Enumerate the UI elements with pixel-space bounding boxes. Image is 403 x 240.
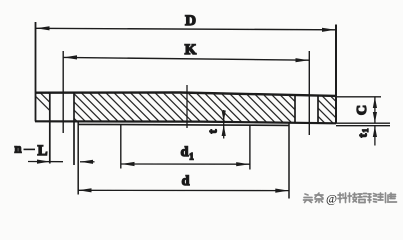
char 制 [378, 193, 386, 203]
dimension d line [78, 189, 289, 191]
svg-text:D: D [185, 13, 196, 29]
label t1 (rotated) [355, 129, 370, 138]
flange left edge + D extension line [35, 22, 37, 121]
svg-text:n: n [15, 142, 22, 156]
left bolt hole left edge + L extension [49, 93, 51, 164]
plate bottom right extension line [336, 122, 390, 124]
t1 dimension line below [374, 126, 376, 146]
flange top edge [35, 93, 336, 96]
svg-text:1: 1 [361, 129, 370, 133]
t down arrowhead [222, 111, 226, 122]
svg-text:@: @ [326, 192, 337, 206]
K left arrowhead [64, 55, 77, 59]
svg-text:K: K [185, 42, 197, 58]
char 科 [338, 193, 347, 203]
char 技 [348, 193, 357, 202]
right bolt hole right edge [317, 95, 319, 123]
K right arrowhead [296, 58, 309, 62]
svg-text:t: t [355, 134, 369, 138]
raised face lip right edge + d extension [288, 123, 290, 199]
left bolt centerline (K extension) [62, 51, 64, 133]
d left arrowhead [78, 188, 91, 192]
d1 left arrowhead [121, 162, 134, 166]
char 头 [304, 194, 313, 203]
C dimension line [374, 97, 376, 123]
svg-text:L: L [37, 143, 47, 159]
char 能 [368, 194, 377, 203]
right bolt centerline (K extension) [308, 51, 310, 135]
n-L dimension line left part [28, 161, 63, 163]
n-L left-pointing arrowhead at lip left edge [80, 160, 93, 164]
t dimension line (center, through lip) [223, 110, 225, 139]
watermark: gray Chinese text "头条 @科技智能制造" [304, 193, 324, 203]
n-L dimension line right part [80, 161, 95, 163]
flange bottom edge [35, 121, 336, 123]
C up arrowhead [373, 97, 377, 108]
svg-text:d: d [181, 145, 189, 160]
left bolt hole right edge [73, 93, 75, 165]
svg-text:t: t [206, 130, 220, 134]
t up arrowhead [222, 125, 226, 136]
svg-text:C: C [355, 105, 370, 115]
D right arrowhead [322, 28, 335, 32]
hatching of flange section [23, 84, 376, 134]
raised face lip bottom edge [78, 124, 289, 125]
right bolt hole left edge [294, 95, 296, 123]
D left arrowhead [36, 26, 49, 30]
d1 left extension line [120, 125, 122, 169]
lip bottom right extension line [336, 125, 390, 127]
d right arrowhead [275, 189, 288, 193]
svg-text:1: 1 [189, 152, 194, 162]
dimension K line [64, 57, 310, 60]
C down arrowhead [373, 112, 377, 123]
n-L right-pointing arrowhead at hole left edge [37, 160, 50, 164]
t1 up arrowhead [373, 126, 377, 137]
char 条 [315, 193, 323, 203]
dimension D line [36, 28, 336, 30]
C top extension line [337, 96, 381, 98]
dimension d1 line [121, 163, 250, 165]
d1 right arrowhead [236, 162, 249, 166]
flange axis centerline [186, 85, 188, 128]
d1 right extension line [249, 125, 251, 169]
char 造 [388, 193, 397, 202]
flange right edge + D extension line [335, 25, 337, 124]
svg-text:d: d [182, 174, 190, 189]
raised face lip left edge + d extension [77, 122, 79, 195]
char 智 [358, 194, 367, 203]
